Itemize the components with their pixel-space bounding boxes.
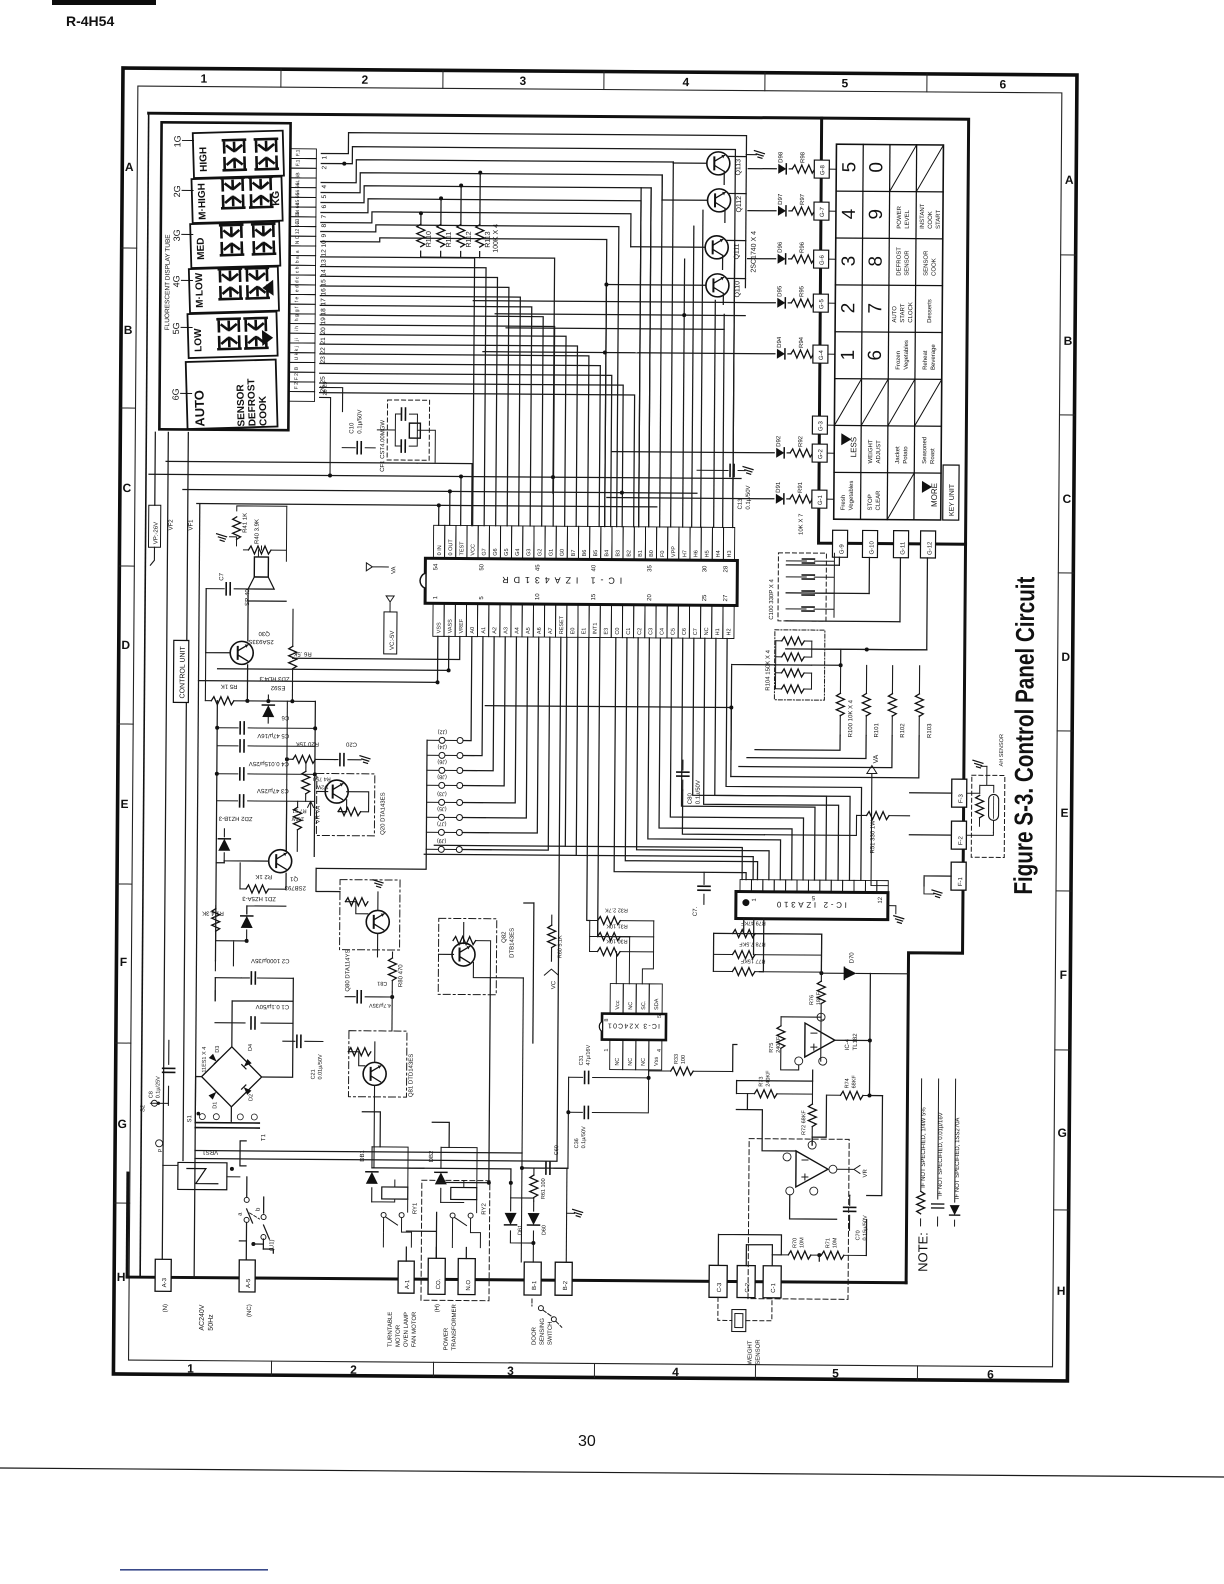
grid column labels top	[187, 72, 1007, 1382]
svg-text:(J5): (J5)	[437, 805, 447, 811]
svg-text:G-5: G-5	[819, 298, 825, 309]
svg-text:NC: NC	[628, 1002, 634, 1010]
IC-1 IZA431DR microcontroller	[420, 558, 738, 605]
svg-text:240KF: 240KF	[766, 1070, 772, 1087]
svg-text:POWER: POWER	[444, 1327, 450, 1350]
AH sensor ground	[981, 765, 987, 767]
svg-text:G7: G7	[482, 548, 488, 555]
svg-text:D92: D92	[776, 435, 782, 447]
svg-text:C36: C36	[574, 1138, 580, 1148]
svg-text:Q1: Q1	[289, 875, 298, 881]
svg-text:A1: A1	[481, 627, 487, 634]
svg-text:C20: C20	[345, 741, 357, 747]
svg-text:Q112: Q112	[736, 196, 743, 213]
svg-text:R73: R73	[759, 1077, 765, 1087]
left thick riser	[126, 1173, 130, 1277]
svg-text:a: a	[295, 250, 301, 253]
svg-text:k j: k j	[294, 346, 300, 351]
svg-text:IF NOT SPECIFIED, 0.01µ/16V: IF NOT SPECIFIED, 0.01µ/16V	[938, 1112, 945, 1196]
junction dots	[342, 162, 346, 166]
wires above A-1	[371, 1168, 467, 1262]
svg-text:(N): (N)	[163, 1304, 169, 1312]
relay coil RY1	[382, 1187, 408, 1199]
svg-text:17: 17	[320, 298, 327, 306]
svg-text:D1: D1	[212, 1102, 218, 1109]
svg-text:G-9: G-9	[839, 544, 845, 555]
svg-text:R4 750: R4 750	[313, 775, 331, 781]
terminal N.O	[458, 1258, 475, 1294]
svg-text:Q113: Q113	[735, 159, 742, 176]
svg-text:VSS: VSS	[436, 622, 442, 633]
connector boxes F-1 F-2 F-3	[952, 779, 967, 807]
svg-text:R78 7.5KF: R78 7.5KF	[739, 941, 766, 947]
svg-text:2G: 2G	[172, 185, 182, 197]
long matrix rows to key scan area	[473, 301, 745, 354]
svg-text:C4 0.015µ/25V: C4 0.015µ/25V	[249, 760, 289, 766]
svg-text:C10: C10	[349, 422, 355, 434]
extra rails mid-right	[316, 704, 731, 871]
VA arrow label mid	[366, 563, 388, 571]
svg-text:21: 21	[320, 337, 327, 345]
svg-text:U k: U k	[294, 352, 300, 360]
svg-text:C80: C80	[688, 792, 694, 804]
svg-text:COOK: COOK	[258, 395, 270, 426]
svg-text:CONTROL UNIT: CONTROL UNIT	[179, 645, 186, 698]
svg-text:2: 2	[321, 165, 328, 169]
svg-text:0.15µ/50V: 0.15µ/50V	[862, 1215, 868, 1241]
density wires center-bottom	[362, 845, 576, 1184]
svg-text:Vcc: Vcc	[615, 1000, 621, 1009]
staircase IC-1 ports C0-C7 to IC-2 pins	[614, 638, 863, 881]
op-amp IC-4 (second)	[796, 1151, 828, 1187]
svg-text:Roast: Roast	[930, 448, 936, 464]
svg-text:S2: S2	[140, 1104, 146, 1112]
svg-text:A: A	[125, 160, 134, 174]
svg-text:h g: h g	[294, 314, 300, 321]
svg-text:ZD2 HZ1B-3: ZD2 HZ1B-3	[218, 815, 252, 821]
speaker SP-40	[254, 557, 268, 577]
svg-text:R111: R111	[446, 232, 453, 248]
svg-text:R94: R94	[799, 336, 805, 348]
svg-text:R80 470: R80 470	[398, 964, 404, 987]
svg-text:(J4): (J4)	[437, 743, 447, 749]
svg-text:Seasoned: Seasoned	[922, 437, 928, 464]
svg-text:R32 2.7K: R32 2.7K	[605, 907, 628, 913]
resistors R100-R103 10K x 4	[839, 665, 842, 735]
svg-text:10K X 7: 10K X 7	[799, 513, 805, 535]
svg-text:G: G	[1057, 1126, 1066, 1140]
svg-text:Q20 DTA143ES: Q20 DTA143ES	[380, 792, 386, 835]
svg-text:AUTO: AUTO	[192, 390, 208, 427]
svg-text:240KF: 240KF	[776, 1036, 782, 1053]
svg-text:1: 1	[201, 72, 208, 86]
resistor R75 240KF	[780, 1017, 782, 1026]
outer page border	[113, 68, 1077, 1381]
svg-text:19: 19	[320, 317, 327, 325]
op-amp IC-4 TL182 (first)	[805, 1023, 835, 1057]
D60 D61 R61 C60	[510, 1198, 533, 1262]
svg-text:R104 150K X 4: R104 150K X 4	[765, 649, 771, 690]
svg-text:e d: e d	[294, 285, 300, 292]
svg-text:9: 9	[866, 209, 887, 220]
svg-text:ADJUST: ADJUST	[876, 440, 882, 464]
resistor R76 18KF	[820, 934, 822, 981]
C-3 C-2 C-1 terminals	[709, 1265, 727, 1297]
capacitor C2 1000P/35V	[214, 961, 216, 1001]
terminal A-3	[155, 1259, 171, 1291]
svg-text:D94: D94	[777, 336, 783, 348]
svg-text:R40 3.9K: R40 3.9K	[255, 519, 261, 544]
svg-text:B1: B1	[638, 550, 644, 557]
svg-text:1G: 1G	[172, 135, 182, 147]
svg-text:R76: R76	[809, 995, 815, 1005]
svg-text:CLOCK: CLOCK	[908, 302, 914, 323]
thick key-unit bus	[819, 118, 969, 544]
svg-text:2: 2	[350, 1363, 357, 1377]
capacitor bank C100 3300P x 4	[778, 553, 826, 621]
svg-text:B7: B7	[571, 550, 577, 557]
svg-text:G-2: G-2	[818, 448, 824, 459]
R70 10M R71 10M	[781, 1254, 818, 1256]
svg-text:P: P	[158, 1148, 164, 1152]
svg-text:R103: R103	[927, 723, 933, 738]
svg-text:R6 .5K: R6 .5K	[293, 650, 311, 656]
svg-text:i h: i h	[294, 326, 300, 332]
svg-text:COOK: COOK	[928, 211, 934, 229]
svg-text:SC.: SC.	[641, 1000, 647, 1010]
svg-text:F-3: F-3	[959, 793, 965, 803]
terminal A-5	[239, 1260, 255, 1292]
svg-text:0.1µ/50V: 0.1µ/50V	[696, 780, 702, 804]
svg-text:C3: C3	[648, 628, 654, 635]
transistor Q30 2SA933S	[230, 641, 253, 664]
svg-text:R33: R33	[674, 1054, 680, 1064]
svg-text:M·HIGH: M·HIGH	[197, 183, 209, 220]
svg-text:F 2: F 2	[294, 382, 300, 389]
svg-text:C3 47µ/25V: C3 47µ/25V	[257, 787, 289, 793]
svg-text:LOW: LOW	[193, 328, 205, 352]
svg-text:Desserts: Desserts	[927, 299, 933, 323]
capacitor C60	[534, 1155, 554, 1181]
svg-text:25: 25	[702, 594, 708, 601]
svg-text:VF1: VF1	[189, 519, 195, 531]
svg-text:Beverage: Beverage	[931, 344, 937, 370]
svg-text:68KF: 68KF	[852, 1075, 858, 1089]
svg-text:KG: KG	[271, 190, 282, 206]
R74 68KF	[826, 1094, 882, 1096]
svg-text:Reheat: Reheat	[923, 350, 929, 370]
svg-text:T1: T1	[261, 1133, 267, 1141]
schematic frame left edge	[140, 113, 149, 1277]
key scan rows with diodes D91-D98, resistors R91-R98, boxes G-1..G-8	[748, 168, 792, 170]
VC arrow label	[544, 969, 558, 975]
vertical drops to IC-1 right-side top pins	[639, 162, 736, 528]
R72 68KF	[811, 1081, 813, 1104]
svg-text:F0: F0	[660, 551, 666, 557]
svg-text:8: 8	[604, 1018, 610, 1021]
svg-text:C4: C4	[659, 628, 665, 635]
svg-text:G0: G0	[560, 549, 566, 556]
svg-text:35: 35	[647, 565, 653, 572]
svg-text:VA: VA	[391, 566, 397, 574]
zener ZD2 HZ1B-3	[223, 829, 225, 863]
resistor R6 15K	[292, 609, 294, 646]
svg-text:START: START	[936, 210, 942, 229]
svg-text:G-6: G-6	[820, 254, 826, 265]
wires to F boxes	[909, 793, 952, 886]
svg-text:H1: H1	[715, 628, 721, 635]
resistor R1 4.3K	[215, 906, 217, 909]
VC:-5V boxed label	[384, 612, 397, 654]
svg-text:4: 4	[321, 184, 328, 188]
capacitor C21 0.01P/50V	[283, 1040, 323, 1042]
varistor VRS1	[178, 1162, 227, 1189]
svg-text:Q110: Q110	[734, 281, 741, 298]
svg-text:Q30: Q30	[258, 630, 270, 636]
svg-text:c b: c b	[294, 266, 300, 273]
svg-text:5: 5	[839, 162, 860, 173]
relay contact RY1	[381, 1212, 386, 1217]
svg-text:1/2W: 1/2W	[315, 783, 329, 789]
transistor network Q80 DTA114YS	[340, 880, 401, 950]
svg-text:G1: G1	[549, 549, 555, 556]
svg-text:A-3: A-3	[162, 1277, 168, 1287]
bridge rectifier D1-D4 11ES1 x 4	[201, 1047, 261, 1107]
svg-text:A2: A2	[492, 627, 498, 634]
svg-text:B: B	[1064, 334, 1073, 348]
svg-text:AH SENSOR: AH SENSOR	[999, 734, 1005, 766]
svg-text:14: 14	[320, 269, 327, 277]
svg-text:START: START	[900, 303, 906, 322]
svg-text:C70: C70	[855, 1230, 861, 1240]
svg-text:0.1µ/50V: 0.1µ/50V	[357, 410, 363, 434]
svg-text:G4: G4	[515, 549, 521, 556]
svg-text:C5 47µ/16V: C5 47µ/16V	[257, 732, 289, 738]
svg-text:R1 4.3K: R1 4.3K	[202, 910, 224, 916]
transistor network Q81 DTD143ES	[348, 1031, 406, 1097]
svg-text:AC240V: AC240V	[199, 1304, 206, 1330]
grid column ticks top	[113, 68, 1077, 1381]
svg-text:B: B	[124, 323, 133, 337]
svg-text:G-7: G-7	[820, 206, 826, 217]
svg-text:Frozen: Frozen	[896, 351, 902, 370]
svg-text:R41 1K: R41 1K	[243, 513, 249, 533]
svg-text:R110: R110	[426, 231, 433, 247]
svg-text:R71: R71	[825, 1238, 831, 1248]
svg-text:E: E	[1061, 806, 1069, 820]
svg-text:D97: D97	[778, 193, 784, 205]
transistor Q1 2SB793	[269, 850, 292, 873]
svg-text:NC: NC	[628, 1058, 634, 1066]
svg-text:VCC: VCC	[470, 544, 476, 556]
svg-text:50Hz: 50Hz	[208, 1314, 215, 1331]
svg-text:VR VA: VR VA	[315, 806, 321, 824]
svg-text:VPP: VPP	[671, 546, 677, 557]
svg-text:2: 2	[838, 303, 859, 314]
svg-text:RY1: RY1	[413, 1202, 419, 1214]
svg-text:R77 15KF: R77 15KF	[740, 958, 765, 964]
svg-text:F: F	[1060, 968, 1067, 982]
IC-3 X24C01 EEPROM	[602, 1014, 666, 1040]
svg-text:G6: G6	[493, 548, 499, 555]
svg-text:18KF: 18KF	[816, 991, 822, 1005]
svg-text:R91: R91	[798, 481, 804, 493]
svg-text:A: A	[1065, 173, 1074, 187]
wires op-amp area	[711, 933, 883, 1266]
svg-text:40: 40	[591, 564, 597, 571]
svg-text:(J6): (J6)	[437, 758, 447, 764]
terminal B-1	[524, 1262, 541, 1295]
svg-text:3: 3	[507, 1364, 514, 1378]
svg-text:10M: 10M	[799, 1237, 805, 1248]
svg-text:CF1 CST4.00MGW: CF1 CST4.00MGW	[380, 420, 386, 472]
svg-text:0 IN: 0 IN	[437, 545, 443, 555]
svg-text:C81: C81	[377, 980, 387, 986]
svg-text:SWITCH: SWITCH	[548, 1321, 554, 1345]
resistor R2 1K	[240, 888, 246, 890]
CONTROL UNIT boxed label	[173, 640, 188, 702]
svg-text:20: 20	[647, 594, 653, 601]
svg-text:R97: R97	[800, 193, 806, 205]
svg-text:RESET: RESET	[559, 615, 565, 634]
svg-text:VRS1: VRS1	[202, 1149, 218, 1155]
svg-text:C6: C6	[281, 714, 289, 720]
svg-text:E3: E3	[604, 628, 610, 635]
display digit cell M-HIGH	[191, 177, 282, 223]
svg-text:R61 100: R61 100	[541, 1178, 547, 1199]
svg-text:G-3: G-3	[818, 420, 824, 431]
svg-text:45: 45	[535, 564, 541, 571]
svg-text:D91: D91	[776, 481, 782, 493]
S1 S2 labels	[151, 1100, 157, 1106]
extra connecting wires bottom middle	[194, 787, 765, 1282]
svg-text:C31: C31	[579, 1055, 585, 1065]
svg-text:G-4: G-4	[819, 349, 825, 360]
inner page border	[129, 86, 1062, 1367]
svg-text:1: 1	[838, 350, 859, 361]
svg-text:3: 3	[839, 256, 860, 267]
svg-text:13: 13	[321, 259, 328, 267]
svg-text:9: 9	[321, 233, 328, 237]
grid row labels left and right	[116, 160, 1074, 1298]
svg-text:10: 10	[535, 593, 541, 600]
svg-text:H2: H2	[726, 628, 732, 635]
horizontal rails VA / VC	[149, 461, 741, 507]
svg-text:IC-2 IZA310: IC-2 IZA310	[776, 900, 847, 910]
svg-text:8: 8	[866, 256, 887, 267]
IC-1 pin numbers	[433, 563, 729, 602]
door sensing switch	[538, 1306, 543, 1311]
svg-text:F,1: F,1	[295, 149, 301, 156]
resistors R79 47KF / R78 7.5KF / R77 15KF	[714, 932, 822, 935]
svg-text:B4: B4	[604, 550, 610, 557]
svg-text:f e: f e	[294, 296, 300, 302]
svg-text:G5: G5	[504, 548, 510, 555]
svg-text:INSTANT: INSTANT	[920, 203, 926, 229]
ground right of IC-2	[888, 906, 896, 914]
svg-text:SENSOR: SENSOR	[756, 1339, 762, 1365]
svg-text:KEY UNIT: KEY UNIT	[949, 483, 956, 516]
svg-text:H3: H3	[727, 550, 733, 557]
schematic main frame	[140, 113, 969, 1283]
svg-text:F 2: F 2	[294, 373, 300, 380]
column driver boxes G-9..G-12	[832, 530, 847, 557]
weight amp dashed box	[748, 1139, 849, 1300]
svg-text:POWER: POWER	[897, 205, 903, 228]
display digit cell LOW	[187, 312, 277, 358]
svg-text:MED: MED	[196, 237, 208, 260]
diode D70	[823, 972, 908, 975]
display digit cell HIGH	[193, 131, 284, 178]
svg-text:R112: R112	[466, 231, 473, 247]
svg-text:DEFROST: DEFROST	[896, 247, 902, 276]
resistors R30 10K / R31 10K / R32 2.7K	[590, 950, 654, 952]
svg-text:15: 15	[591, 593, 597, 600]
svg-text:Vegetables: Vegetables	[849, 481, 855, 511]
svg-text:R101: R101	[874, 723, 880, 738]
svg-text:DTB143ES: DTB143ES	[509, 928, 515, 958]
svg-text:j i: j i	[294, 338, 300, 343]
transistors Q110-Q113 2SC1740	[707, 152, 730, 175]
svg-text:SDA: SDA	[654, 998, 660, 1010]
svg-text:SENSOR: SENSOR	[904, 250, 910, 276]
svg-text:b a: b a	[295, 256, 301, 263]
svg-text:D60: D60	[541, 1225, 547, 1235]
ground above Q80	[373, 880, 383, 888]
resistor R33 100	[665, 1070, 733, 1072]
svg-text:6: 6	[987, 1367, 994, 1381]
transistor network Q82 DTB143ES	[438, 918, 497, 994]
svg-text:C6: C6	[682, 628, 688, 635]
svg-text:B-2: B-2	[563, 1280, 569, 1290]
svg-text:R-4H54: R-4H54	[66, 13, 114, 29]
svg-text:D3: D3	[215, 1046, 221, 1053]
svg-text:R70: R70	[792, 1238, 798, 1248]
svg-text:COOK: COOK	[931, 258, 937, 276]
resistor R61 100	[533, 1168, 535, 1175]
svg-text:Q80 DTA114YS: Q80 DTA114YS	[345, 950, 351, 992]
capacitors C6 C5 C4 C3	[216, 701, 316, 917]
svg-text:VC:-5V: VC:-5V	[390, 631, 396, 650]
svg-text:5G: 5G	[171, 322, 181, 334]
svg-text:G: G	[118, 1117, 127, 1131]
svg-text:3G: 3G	[172, 229, 182, 241]
svg-text:R20 15K: R20 15K	[296, 740, 319, 746]
svg-text:2: 2	[362, 73, 369, 87]
svg-text:H: H	[117, 1270, 126, 1284]
svg-text:A-1: A-1	[405, 1279, 411, 1289]
svg-text:ZD1 HZ5A-3: ZD1 HZ5A-3	[242, 895, 276, 901]
svg-text:30: 30	[702, 565, 708, 572]
svg-text:B3: B3	[615, 550, 621, 557]
capacitor C1 0.1P/50V	[215, 1022, 293, 1025]
svg-text:1: 1	[604, 1048, 610, 1051]
svg-text:D98: D98	[778, 151, 784, 163]
svg-text:IF NOT SPECIFIED, 1/4W 5%: IF NOT SPECIFIED, 1/4W 5%	[921, 1107, 928, 1188]
svg-text:R2 1K: R2 1K	[255, 873, 272, 879]
svg-text:C: C	[1062, 492, 1071, 506]
svg-text:VA: VA	[873, 754, 880, 763]
svg-text:N C: N C	[295, 235, 301, 244]
resistor R20 15K	[287, 758, 293, 760]
capacitor C8 0.1P/25V	[167, 1040, 169, 1105]
svg-text:G-12: G-12	[927, 541, 933, 555]
svg-text:G-1: G-1	[818, 494, 824, 505]
terminal A-1	[398, 1261, 414, 1293]
svg-text:100K X 4: 100K X 4	[493, 224, 500, 253]
relay coil RY2	[451, 1187, 477, 1199]
svg-text:H5: H5	[705, 550, 711, 557]
